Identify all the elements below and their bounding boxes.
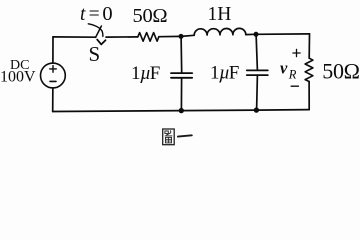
svg-text:50Ω: 50Ω	[322, 59, 359, 84]
wire switch to resistor R1	[106, 36, 138, 38]
wire inductor L1 to node B	[246, 33, 256, 35]
switch S closing arrow arc	[88, 24, 103, 37]
wire right vertical lower (from resistor R2)	[308, 82, 310, 110]
capacitor C2 bottom plate	[247, 74, 268, 76]
wire bottom from node D to right corner	[256, 109, 309, 112]
capacitor C2 top plate	[247, 69, 268, 71]
source V1 minus sign	[50, 80, 56, 82]
wire node A to inductor L1	[181, 35, 194, 36]
svg-text:1H: 1H	[208, 4, 232, 25]
wire left vertical lower (source bottom lead)	[52, 88, 54, 112]
wire node B to top-right corner	[256, 33, 310, 35]
svg-text:1µF: 1µF	[131, 63, 160, 84]
svg-text:S: S	[89, 42, 101, 66]
wire capacitor C2 lower lead	[256, 75, 259, 110]
svg-text:vR: vR	[280, 59, 297, 82]
wire right vertical upper (to resistor R2)	[308, 34, 310, 58]
node B junction dot	[254, 32, 259, 37]
node D junction dot	[254, 107, 259, 112]
caption character 一	[178, 135, 192, 136]
capacitor C1 bottom plate	[171, 77, 192, 79]
resistor R1 zigzag	[138, 33, 159, 42]
node A junction dot	[179, 34, 184, 39]
capacitor C1 top plate	[171, 72, 192, 74]
vR plus sign	[293, 49, 300, 56]
resistor R2 zigzag	[305, 58, 313, 81]
inductor L1 humps	[194, 28, 246, 35]
wire capacitor C2 upper lead	[256, 34, 257, 70]
source V1 plus sign	[50, 66, 57, 73]
wire left vertical upper (source top lead)	[52, 37, 54, 63]
vR minus sign	[291, 85, 298, 87]
svg-text:50Ω: 50Ω	[133, 5, 168, 27]
switch S blade	[96, 26, 102, 37]
wire top-left from corner to switch	[53, 36, 96, 38]
switch S arrowhead	[97, 40, 105, 45]
wire capacitor C1 upper lead	[180, 36, 183, 73]
svg-text:1µF: 1µF	[210, 62, 239, 83]
svg-text:t=0: t=0	[80, 3, 113, 25]
wire resistor R1 to node A	[159, 35, 181, 37]
wire bottom from left corner to node C	[53, 110, 182, 113]
wire capacitor C1 lower lead	[180, 78, 182, 111]
svg-text:100V: 100V	[0, 69, 36, 86]
node C junction dot	[179, 108, 184, 113]
caption character 圖	[163, 129, 175, 145]
voltage source V1 circle	[41, 63, 66, 88]
wire bottom from node C to node D	[181, 109, 256, 112]
